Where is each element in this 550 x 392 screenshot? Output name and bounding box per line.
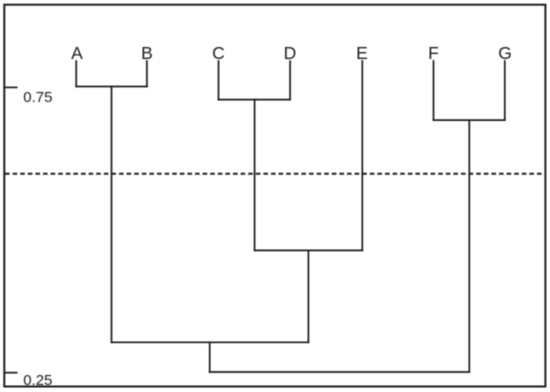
svg-text:G: G [498,43,512,63]
join bar F-G [434,119,505,121]
svg-text:0.25: 0.25 [23,372,52,389]
wire stem D [289,61,291,100]
join bar A-B [76,86,147,88]
wire descender AB cluster [111,87,113,343]
axis tick 0.75 [4,86,17,88]
join bar AB-CDE [112,341,309,343]
svg-text:C: C [212,43,225,63]
wire descender FG cluster [468,120,470,372]
svg-text:0.75: 0.75 [23,89,52,106]
wire descender CDE cluster [307,250,309,342]
svg-text:A: A [71,43,83,63]
join bar CD-E [255,249,363,251]
wire stem A [75,61,77,87]
axis tick 0.25 [4,372,17,374]
svg-text:F: F [428,43,439,63]
join bar C-D [219,99,291,101]
wire stem E [361,61,363,250]
svg-text:B: B [141,43,153,63]
wire descender CD cluster [254,100,256,251]
wire stem F [433,61,435,120]
svg-text:D: D [284,43,297,63]
wire descender ABCDE cluster [209,342,211,372]
wire stem B [146,61,148,87]
root join bar [210,371,470,373]
wire stem G [504,61,506,120]
dashed threshold line [5,173,545,175]
wire stem C [218,61,220,100]
svg-text:E: E [356,43,368,63]
